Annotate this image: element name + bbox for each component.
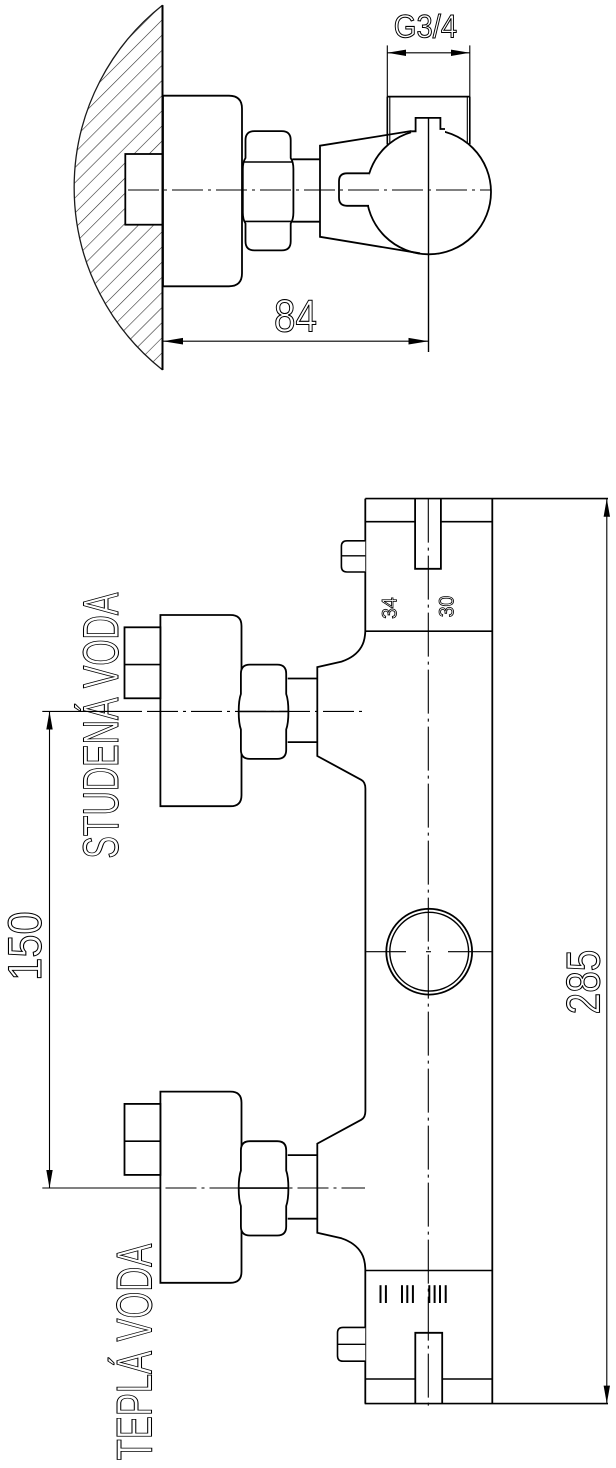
svg-text:34: 34 bbox=[378, 597, 401, 619]
cold water wall union line bbox=[125, 664, 161, 666]
hot water cylinder bottom bbox=[288, 1218, 318, 1220]
285 arrow bottom bbox=[604, 1386, 610, 1404]
bottom section top line bbox=[365, 1270, 493, 1272]
temperature scale ticks bbox=[381, 1285, 446, 1303]
diverter knob bbox=[339, 173, 370, 206]
outlet crosshair horizontal bbox=[366, 951, 492, 953]
front view vertical centerline bbox=[427, 499, 429, 1406]
top slot bbox=[415, 499, 441, 569]
G3/4 arrow left bbox=[387, 50, 406, 56]
wall hatch bbox=[60, 0, 170, 380]
G3/4 arrow right bbox=[451, 50, 470, 56]
150 arrow bottom bbox=[46, 1170, 52, 1188]
G3/4 nut left edge bbox=[386, 97, 388, 145]
body outline bbox=[317, 499, 365, 1404]
handle cone bbox=[320, 131, 420, 253]
hot water centerline bbox=[42, 1187, 365, 1189]
body right edge bbox=[491, 499, 493, 1404]
G3/4 extension line left bbox=[386, 45, 388, 96]
hot water wall union rect bbox=[125, 1104, 161, 1175]
G3/4 nut left inner edge bbox=[389, 97, 391, 143]
svg-text:30: 30 bbox=[436, 596, 459, 618]
hot water valve backplate bbox=[160, 1092, 241, 1283]
top cover line bbox=[365, 521, 492, 523]
84 arrow right bbox=[409, 338, 429, 345]
svg-text:G3/4: G3/4 bbox=[394, 8, 457, 44]
G3/4 nut right inner edge bbox=[466, 97, 468, 143]
bottom channel bbox=[415, 1333, 442, 1404]
285 dimension line bbox=[606, 499, 608, 1404]
svg-text:285: 285 bbox=[556, 950, 609, 1015]
hex nut face line upper bbox=[244, 161, 292, 163]
upper side tab mid line bbox=[341, 555, 365, 557]
hex nut face line lower bbox=[244, 220, 292, 222]
hex nut (side) bbox=[243, 131, 294, 250]
shower outlet circle inner bbox=[390, 912, 469, 991]
top cap bbox=[411, 118, 445, 134]
cold water hex nut bbox=[239, 665, 289, 759]
body bottom edge bbox=[365, 1403, 608, 1405]
cold water cylinder bottom bbox=[288, 741, 318, 743]
cold water cylinder top bbox=[288, 678, 318, 680]
cold water centerline bbox=[42, 710, 365, 712]
svg-text:150: 150 bbox=[0, 911, 51, 980]
connector cylinder top bbox=[292, 158, 320, 160]
G3/4 nut right edge bbox=[469, 97, 471, 145]
hot water wall union line bbox=[125, 1140, 161, 1142]
flange bbox=[163, 96, 242, 287]
bottom section lower line bbox=[365, 1378, 493, 1380]
connector cylinder bottom bbox=[292, 221, 320, 223]
hot water cylinder top bbox=[288, 1154, 318, 1156]
shower outlet circle outer bbox=[386, 909, 472, 995]
lower side tab bbox=[338, 1327, 366, 1361]
285 arrow top bbox=[604, 499, 610, 517]
svg-text:84: 84 bbox=[274, 291, 317, 342]
hot water hex nut mid line bbox=[239, 1187, 287, 1189]
wall arc bbox=[74, 5, 162, 370]
G3/4 dimension line bbox=[387, 52, 470, 54]
wall union rect bbox=[125, 154, 162, 225]
cold water valve backplate bbox=[160, 615, 241, 806]
side view centerline bbox=[128, 189, 492, 191]
G3/4 extension line right bbox=[469, 45, 471, 96]
svg-text:TEPLÁ VODA: TEPLÁ VODA bbox=[106, 1243, 162, 1460]
84 dimension line bbox=[163, 340, 429, 342]
150 dimension line bbox=[49, 711, 51, 1188]
handle circle bbox=[366, 130, 491, 255]
G3/4 nut top line bbox=[387, 96, 470, 98]
lower side tab mid line bbox=[338, 1343, 366, 1345]
cold water wall union rect bbox=[125, 627, 161, 698]
upper side tab bbox=[341, 541, 365, 572]
150 arrow top bbox=[46, 711, 52, 729]
section line 34/30 bbox=[365, 630, 493, 632]
cold water hex nut mid line bbox=[239, 711, 287, 713]
wall line bbox=[162, 5, 164, 370]
84 arrow left bbox=[163, 338, 183, 345]
body top edge bbox=[365, 498, 608, 500]
hot water hex nut bbox=[239, 1141, 289, 1235]
outlet axis vertical line bbox=[428, 118, 430, 352]
svg-text:STUDENÁ VODA: STUDENÁ VODA bbox=[73, 592, 129, 858]
